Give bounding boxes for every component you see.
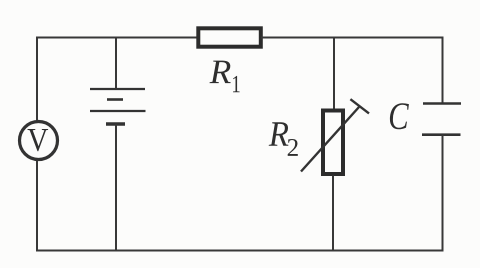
wire right side lower	[442, 135, 444, 252]
wire top-left segment	[36, 37, 198, 39]
label R2: subscript 2	[288, 139, 298, 156]
R2 arrow diagonal	[301, 107, 359, 172]
wire R2 branch lower	[332, 176, 334, 251]
wire top-right segment	[261, 37, 444, 39]
wire battery branch upper	[115, 37, 117, 90]
voltmeter label V	[28, 129, 49, 151]
battery long plate 1	[90, 88, 145, 90]
wire right side upper	[442, 37, 444, 104]
wire left side	[36, 37, 38, 251]
capacitor C top plate	[423, 102, 461, 105]
battery short plate 1	[107, 98, 123, 101]
label R1: subscript 1	[233, 76, 240, 92]
wire battery branch lower	[115, 124, 117, 251]
battery short plate 2	[106, 122, 125, 126]
label R1: letter R	[210, 61, 231, 84]
wire R2 branch upper	[333, 37, 335, 111]
label R2: letter R	[269, 122, 289, 145]
variable resistor R2 body	[323, 111, 343, 175]
wire bottom	[36, 250, 444, 252]
capacitor C bottom plate	[422, 133, 461, 136]
voltmeter circle	[20, 122, 58, 160]
resistor R1	[198, 28, 260, 46]
battery long plate 2	[90, 110, 146, 112]
label C	[390, 103, 409, 129]
R2 arrow crossbar	[350, 99, 369, 113]
